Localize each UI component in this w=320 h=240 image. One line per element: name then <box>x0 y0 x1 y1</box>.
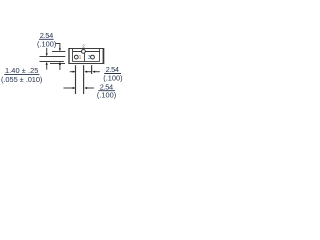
svg-text:2.54: 2.54 <box>40 31 53 40</box>
svg-text:1: 1 <box>79 55 82 61</box>
svg-text:(.100): (.100) <box>103 74 122 83</box>
svg-text:(.055 ± .010): (.055 ± .010) <box>1 75 42 84</box>
svg-text:(.100): (.100) <box>37 40 56 49</box>
svg-text:(.100): (.100) <box>97 91 116 100</box>
svg-text:1.40 ± .25: 1.40 ± .25 <box>5 66 38 75</box>
svg-text:2: 2 <box>82 44 85 50</box>
svg-text:3: 3 <box>88 55 91 61</box>
